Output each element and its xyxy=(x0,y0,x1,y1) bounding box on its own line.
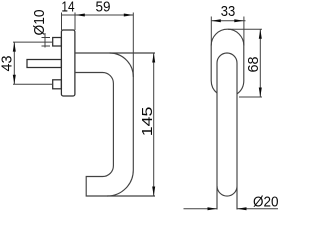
extension line 43 bottom (pin axis) xyxy=(13,83,53,85)
tick dia10 top xyxy=(42,37,51,39)
arrow 43 top xyxy=(13,42,16,52)
arrow 68 bottom xyxy=(259,88,262,98)
svg-text:68: 68 xyxy=(246,56,262,72)
arrow 33 left xyxy=(211,19,221,22)
extension line 59 right / grip outer face xyxy=(132,13,134,78)
arrow 145 bottom xyxy=(152,187,155,197)
leader dia20 left segment xyxy=(184,208,218,210)
top fixing pin xyxy=(53,38,62,47)
dim line 43 xyxy=(13,42,15,84)
spindle xyxy=(27,60,61,68)
extension line 14 left xyxy=(61,13,63,31)
arrow 145 top xyxy=(152,53,155,63)
leader dia20 right segment xyxy=(237,208,278,210)
extension line 68 top xyxy=(228,28,262,30)
extension line 14 right xyxy=(74,13,76,31)
svg-text:43: 43 xyxy=(0,55,16,71)
neck top extension line to 145 dim xyxy=(110,52,156,54)
dim line 145 xyxy=(153,53,155,196)
arrow dia20 at right line xyxy=(237,207,247,210)
extension line 68 bottom xyxy=(239,96,262,98)
arrow 59 right xyxy=(124,14,134,17)
svg-text:14: 14 xyxy=(61,0,74,15)
extension line dia10 xyxy=(44,33,46,48)
handle outer contour side view xyxy=(75,53,133,196)
svg-text:Ø20: Ø20 xyxy=(253,195,279,211)
bottom fixing pin xyxy=(53,80,62,89)
arrow 68 top xyxy=(259,29,262,39)
arrow 43 bottom xyxy=(13,75,16,85)
bottom extension line to 145 dim xyxy=(107,195,155,197)
svg-text:59: 59 xyxy=(96,0,111,16)
svg-text:33: 33 xyxy=(221,4,236,20)
grip front view xyxy=(217,53,237,210)
extension line 43 top (pin axis) xyxy=(13,41,53,43)
rose plate side view xyxy=(61,30,75,96)
extension line 33 right xyxy=(243,17,245,46)
svg-text:Ø10: Ø10 xyxy=(32,9,48,35)
svg-text:145: 145 xyxy=(140,107,156,137)
arrow dia20 at left line xyxy=(208,207,218,210)
tick dia10 bottom xyxy=(42,45,51,47)
dim line 33 xyxy=(211,20,245,22)
dim line 14 xyxy=(62,14,76,16)
dim line 68 xyxy=(259,29,261,97)
arrow 59 left xyxy=(75,14,85,17)
arrow 33 right xyxy=(234,19,244,22)
dim line 59 xyxy=(75,14,133,16)
rose front view outline xyxy=(211,29,244,94)
extension line 33 left xyxy=(210,17,212,46)
